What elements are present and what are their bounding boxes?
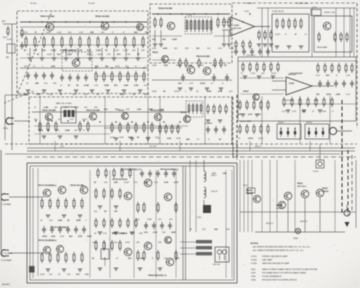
svg-text:6.8K: 6.8K [124,85,129,87]
svg-text:2.2K: 2.2K [57,32,62,34]
svg-text:4.7K: 4.7K [292,111,297,113]
svg-text:4.7K: 4.7K [346,94,351,96]
svg-text:10/16: 10/16 [229,48,235,50]
svg-text:2.2K: 2.2K [251,73,256,75]
svg-text:TAPE END INDICATOR LAMP: TAPE END INDICATOR LAMP [262,262,290,265]
svg-text:4.7K: 4.7K [153,231,158,234]
svg-text:100P: 100P [148,109,153,111]
svg-text:10K: 10K [33,50,37,52]
svg-text:TR204 2SC458: TR204 2SC458 [158,7,173,10]
svg-text:6.8K: 6.8K [163,48,168,50]
svg-text:0.047: 0.047 [46,32,52,34]
svg-text:RADIO POWER & BAND SELECTOR SW: RADIO POWER & BAND SELECTOR SWITCH (AM-O… [262,268,318,271]
svg-text:10/16: 10/16 [275,34,281,36]
svg-text:TR207: TR207 [243,91,249,93]
svg-text:TR804 2SD218(L,V): TR804 2SD218(L,V) [148,274,167,277]
svg-text:NOTES: NOTES [251,243,259,245]
svg-text:TR205: TR205 [152,52,159,54]
svg-text:TR701 2SC458(B,L): TR701 2SC458(B,L) [38,184,57,187]
svg-text:C263: C263 [314,100,318,102]
svg-text:10/16: 10/16 [24,66,30,68]
svg-text:PL202 FL201: PL202 FL201 [272,11,285,13]
svg-text:6.8K: 6.8K [51,66,56,68]
svg-text:10/16: 10/16 [248,138,254,140]
svg-text:47K: 47K [42,49,46,52]
svg-text:0.047: 0.047 [84,84,90,87]
svg-text:38KHz AMP: 38KHz AMP [317,46,328,49]
svg-text:B+ 24V: B+ 24V [150,146,157,148]
svg-text:2.2K: 2.2K [78,50,83,52]
svg-text:10K: 10K [162,39,166,41]
svg-text:PB IN: PB IN [3,128,9,130]
svg-text:R60 4.7: R60 4.7 [255,146,262,148]
svg-text:R273 22K: R273 22K [286,100,295,102]
svg-text:TR705 2SC631A: TR705 2SC631A [112,178,128,181]
svg-text:1/2W: 1/2W [125,242,130,244]
svg-text:C219 R241: C219 R241 [246,55,255,57]
svg-text:33K: 33K [90,32,94,34]
svg-text:PROGRAM SELECTOR SWITCH (RADIO: PROGRAM SELECTOR SWITCH (RADIO-TAPE) [262,271,306,274]
svg-text:2.2K: 2.2K [51,236,56,238]
svg-text:P CV 48-48: P CV 48-48 [2,253,13,255]
svg-text:6.8K: 6.8K [120,94,125,96]
svg-text:PL502: PL502 [251,259,258,261]
svg-text:PL503: PL503 [251,263,258,265]
svg-text:BIAS OSC 4.5KHz: BIAS OSC 4.5KHz [56,102,72,105]
svg-text:L CH REAR: L CH REAR [1,203,12,206]
svg-text:10/16: 10/16 [258,138,264,140]
svg-text:KA-4002: KA-4002 [2,283,11,286]
svg-text:100P: 100P [152,65,157,67]
svg-text:0.047: 0.047 [124,182,130,184]
svg-text:1/2W: 1/2W [176,138,181,140]
svg-text:33K: 33K [35,83,39,85]
svg-text:100P: 100P [87,236,92,238]
svg-text:6.8K: 6.8K [44,107,49,109]
svg-text:6.8K: 6.8K [207,91,212,93]
svg-text:33K: 33K [186,139,190,141]
svg-text:2.2K: 2.2K [164,182,169,184]
svg-text:2.2K: 2.2K [346,75,351,77]
svg-text:10/16: 10/16 [326,94,332,96]
svg-text:4.7K: 4.7K [218,90,223,93]
svg-text:100P: 100P [119,137,124,139]
svg-text:PL601: PL601 [313,171,318,173]
svg-text:PARTS(B,L): PARTS(B,L) [297,185,307,188]
svg-text:10/16: 10/16 [174,91,180,93]
svg-text:6.8K: 6.8K [152,48,157,50]
svg-text:47K: 47K [87,49,91,52]
svg-text:47K: 47K [164,64,168,67]
svg-text:10/16: 10/16 [82,119,88,121]
svg-text:100P: 100P [74,107,79,109]
svg-text:R625 0.5: R625 0.5 [266,223,273,225]
svg-text:1/2W: 1/2W [147,219,152,221]
svg-text:0.047: 0.047 [144,85,150,87]
svg-text:6.8K: 6.8K [58,220,63,222]
svg-text:0.047: 0.047 [110,137,116,139]
svg-text:STEREO INDICATOR LAMP: STEREO INDICATOR LAMP [262,255,288,258]
svg-text:TR622: TR622 [297,183,303,185]
svg-text:S201-1 TAPE: S201-1 TAPE [240,120,252,123]
svg-text:L601-L: L601-L [211,175,217,177]
svg-text:10/16: 10/16 [271,73,277,75]
svg-text:AM: AM [6,56,9,59]
svg-text:2.2K: 2.2K [188,65,193,67]
svg-text:1/2W: 1/2W [104,85,109,87]
svg-text:6.8K: 6.8K [336,94,341,96]
svg-text:FM MODE SWITCH (STEREO-MONO): FM MODE SWITCH (STEREO-MONO) [262,280,297,282]
svg-text:S202-4: S202-4 [306,122,312,124]
svg-text:R626 0.5: R626 0.5 [300,221,307,223]
svg-text:2.2K: 2.2K [79,32,84,34]
svg-text:47K: 47K [114,181,118,184]
svg-text:2SD588: 2SD588 [246,193,253,195]
svg-text:4.7K: 4.7K [189,83,194,85]
svg-text:2.2K: 2.2K [87,54,92,56]
svg-text:6.8K: 6.8K [322,111,327,113]
svg-text:1/2W: 1/2W [65,130,70,132]
svg-text:R201: R201 [3,37,7,39]
svg-text:MAIN AMP: MAIN AMP [288,73,298,76]
svg-text:4.7K: 4.7K [146,137,151,139]
svg-text:2.2K: 2.2K [167,138,172,140]
svg-text:TR206 2SC458: TR206 2SC458 [196,55,211,58]
svg-text:IC201: IC201 [234,25,239,27]
svg-text:100P: 100P [40,274,45,276]
svg-text:19KHz T-203: 19KHz T-203 [324,12,335,14]
svg-text:1/2W: 1/2W [115,66,120,68]
svg-text:PULSE GENERATOR: PULSE GENERATOR [262,275,282,278]
svg-text:TP-202: TP-202 [88,3,95,5]
svg-text:10/16: 10/16 [144,94,150,96]
svg-text:100P: 100P [176,65,181,67]
svg-text:TR706 2SC631A: TR706 2SC631A [112,232,128,235]
svg-text:IC202: IC202 [289,83,294,85]
svg-text:4.7K: 4.7K [248,113,253,116]
svg-text:TR706 2SC634(B,L): TR706 2SC634(B,L) [50,226,69,229]
svg-text:2.2K: 2.2K [137,109,142,111]
svg-text:0.047: 0.047 [96,49,102,52]
svg-text:0.047: 0.047 [114,50,120,52]
svg-text:100P: 100P [128,137,133,139]
svg-text:TR623: TR623 [322,188,328,190]
svg-text:1/2W: 1/2W [36,94,41,96]
svg-text:L601-R: L601-R [211,191,218,193]
svg-text:TH601: TH601 [293,238,298,240]
svg-text:EQ AMP: EQ AMP [205,122,213,125]
svg-text:10K: 10K [140,258,144,260]
svg-text:TR702 2SC458(B,L): TR702 2SC458(B,L) [38,239,57,242]
svg-text:0.047: 0.047 [47,54,53,56]
svg-text:S202-2: S202-2 [278,122,284,124]
svg-text:ALL CAPACITORS ARE INDICATED I: ALL CAPACITORS ARE INDICATED IN uF. (P =… [253,249,304,252]
svg-text:10/16: 10/16 [42,236,48,238]
svg-text:2.2K: 2.2K [94,85,99,87]
svg-text:TP-201: TP-201 [30,3,37,5]
svg-text:6.8K: 6.8K [46,119,51,121]
svg-text:C625: C625 [197,217,201,219]
svg-text:ALL RESISTORS ARE INDICATED IN: ALL RESISTORS ARE INDICATED IN OHMS. (K … [253,245,310,248]
svg-text:F601 2A: F601 2A [213,263,221,266]
svg-text:TR102 2SC458: TR102 2SC458 [86,109,101,112]
svg-text:10/16: 10/16 [38,130,44,132]
svg-text:10K: 10K [214,229,218,231]
svg-text:10/16: 10/16 [200,83,206,85]
svg-text:2.2K: 2.2K [134,85,139,87]
svg-text:100P: 100P [171,232,176,234]
svg-text:TR101 2SC458: TR101 2SC458 [42,109,57,112]
svg-text:TR202 2SC458: TR202 2SC458 [95,15,110,18]
svg-text:TR203 2SC458: TR203 2SC458 [63,49,78,52]
svg-text:R CH REAR: R CH REAR [1,259,12,262]
svg-text:100P: 100P [72,94,77,96]
svg-text:47K: 47K [238,113,242,116]
svg-text:C T201: C T201 [186,15,192,17]
svg-text:PL201: PL201 [251,256,258,258]
svg-text:4.7K: 4.7K [78,235,83,238]
svg-text:100P: 100P [130,233,135,235]
svg-text:100P: 100P [152,91,157,93]
svg-text:1/2W: 1/2W [76,220,81,222]
svg-text:VR-R: VR-R [243,185,248,187]
svg-text:0.047: 0.047 [172,38,178,41]
svg-text:T-202: T-202 [244,11,249,13]
svg-text:10/16: 10/16 [92,242,98,244]
svg-text:S-201: S-201 [7,39,12,41]
